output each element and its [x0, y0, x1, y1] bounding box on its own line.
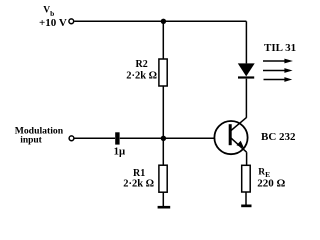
svg-text:220 Ω: 220 Ω: [257, 178, 285, 190]
svg-text:1μ: 1μ: [114, 145, 126, 157]
svg-text:R2: R2: [136, 59, 148, 70]
svg-text:input: input: [20, 135, 42, 145]
svg-text:TIL 31: TIL 31: [264, 42, 296, 54]
svg-text:2·2k Ω: 2·2k Ω: [126, 71, 157, 82]
svg-text:R1: R1: [133, 168, 145, 179]
svg-text:BC 232: BC 232: [261, 131, 296, 143]
svg-text:+10 V: +10 V: [39, 17, 67, 29]
svg-text:2·2k Ω: 2·2k Ω: [123, 178, 154, 189]
